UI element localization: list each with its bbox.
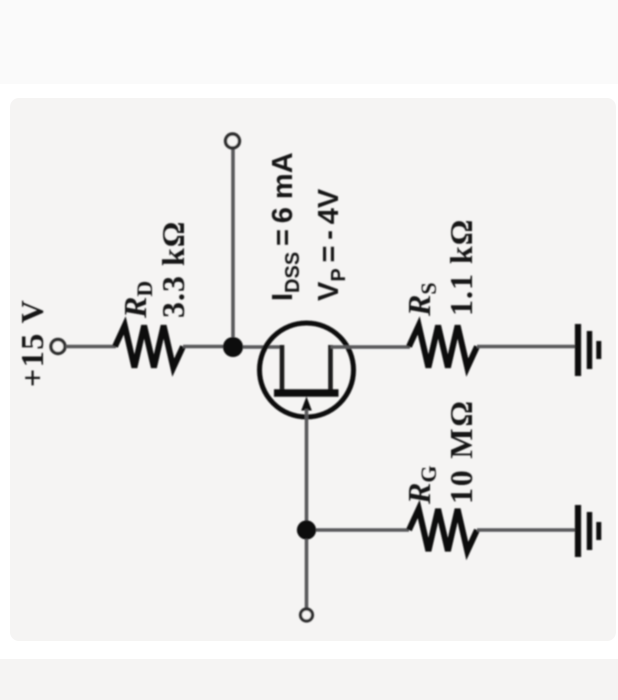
- node gate junction: [297, 520, 316, 539]
- svg-text:10 MΩ: 10 MΩ: [443, 399, 479, 504]
- wire RG to ground 2: [477, 528, 576, 532]
- node drain junction: [223, 337, 243, 357]
- svg-text:1.1 kΩ: 1.1 kΩ: [443, 219, 479, 316]
- terminal supply: [51, 340, 65, 354]
- svg-text:3.3 kΩ: 3.3 kΩ: [155, 221, 191, 318]
- terminal gate input: [301, 609, 313, 621]
- wire drain node into JFET: [243, 345, 283, 349]
- JFET channel bar: [274, 389, 339, 397]
- svg-text:VP = - 4V: VP = - 4V: [313, 188, 350, 301]
- resistor RS: [409, 326, 477, 368]
- terminal drain output: [226, 134, 240, 148]
- top gray band: [0, 0, 618, 84]
- wire source to RS: [331, 345, 411, 349]
- ground 1: [578, 324, 599, 376]
- wire RD to drain node: [183, 345, 233, 349]
- wire RS to ground 1: [477, 345, 576, 349]
- wire gate node to RG: [316, 528, 409, 532]
- JFET source stub: [328, 345, 333, 391]
- resistor RD: [115, 326, 183, 368]
- wire gate node to bottom terminal: [305, 539, 309, 608]
- JFET drain stub: [280, 345, 285, 391]
- JFET U1 circle: [260, 323, 354, 417]
- svg-text:+15 V: +15 V: [14, 299, 50, 387]
- main gray card: [10, 98, 616, 641]
- ground 2: [578, 505, 599, 557]
- bottom gray band: [0, 659, 618, 700]
- resistor RG: [409, 509, 477, 551]
- wire supply to RD: [66, 345, 117, 349]
- JFET gate arrowhead: [301, 397, 312, 411]
- wire drain node to top terminal: [231, 149, 235, 337]
- JFET gate shaft: [305, 409, 309, 530]
